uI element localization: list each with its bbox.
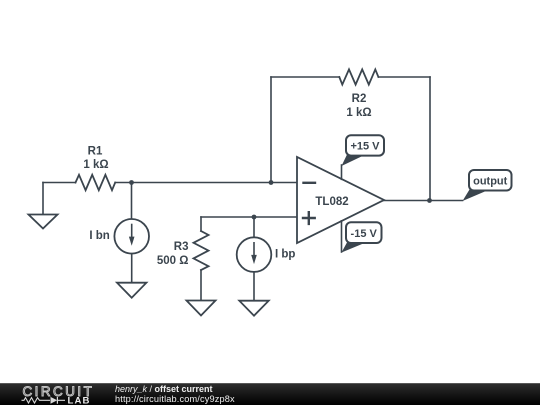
svg-text:-15 V: -15 V <box>351 228 378 240</box>
resistor R2 <box>339 69 378 84</box>
svg-text:1 kΩ: 1 kΩ <box>83 159 108 171</box>
pin V- <box>341 221 343 252</box>
svg-text:output: output <box>473 175 508 187</box>
flag -15 V <box>342 222 382 252</box>
svg-text:500 Ω: 500 Ω <box>157 255 189 267</box>
node junction feedback minus <box>269 180 274 185</box>
wire I bp to ground <box>253 272 255 301</box>
svg-text:+15 V: +15 V <box>350 141 380 153</box>
flag output <box>463 170 512 201</box>
current source I bn arrow <box>129 225 135 246</box>
resistor R1 <box>76 175 116 190</box>
wire ground drop left <box>42 183 44 215</box>
op-amp U1 minus symbol <box>304 182 316 184</box>
ground G4 <box>239 301 268 316</box>
current source I bp arrow <box>251 243 257 264</box>
wire feedback left vertical <box>270 77 272 183</box>
op-amp U1 plus symbol <box>303 212 315 224</box>
wire plus input <box>201 216 297 218</box>
footer bar <box>0 383 540 405</box>
wire output <box>384 200 463 202</box>
wire I bn drop <box>131 183 133 220</box>
node junction I bp plus <box>252 215 257 220</box>
op-amp U1 body <box>297 157 384 243</box>
wire left input segment <box>43 182 76 184</box>
current source I bp body <box>237 237 272 272</box>
wire feedback top left segment <box>271 76 339 78</box>
node junction R1 output <box>129 180 134 185</box>
wire main horizontal to op-amp minus <box>115 182 297 184</box>
ground G3 <box>187 301 216 316</box>
svg-text:henry_k / offset current: henry_k / offset current <box>115 384 213 394</box>
svg-text:1 kΩ: 1 kΩ <box>346 107 371 119</box>
svg-text:TL082: TL082 <box>315 196 348 208</box>
wire I bp drop <box>253 217 255 237</box>
current source I bn body <box>114 219 149 254</box>
wire R3 to ground <box>200 270 202 301</box>
wire I bn to ground <box>131 254 133 283</box>
footer logo diode <box>51 397 58 404</box>
svg-text:I bp: I bp <box>275 249 295 261</box>
node junction output feedback <box>427 198 432 203</box>
wire feedback top right segment <box>378 76 430 78</box>
svg-text:http://circuitlab.com/cy9zp8x: http://circuitlab.com/cy9zp8x <box>115 394 235 404</box>
svg-text:R2: R2 <box>352 93 367 105</box>
svg-text:I bn: I bn <box>89 230 109 242</box>
svg-text:LAB: LAB <box>68 396 91 405</box>
pin V+ <box>341 165 343 179</box>
wire R3 top lead <box>200 217 202 231</box>
footer logo resistor zigzag <box>22 398 51 403</box>
ground G1 <box>29 215 58 229</box>
flag +15 V <box>342 135 385 166</box>
svg-text:R1: R1 <box>88 145 103 157</box>
ground G2 <box>117 283 146 298</box>
svg-text:R3: R3 <box>174 241 189 253</box>
wire feedback right vertical <box>429 77 431 201</box>
resistor R3 <box>194 231 209 270</box>
